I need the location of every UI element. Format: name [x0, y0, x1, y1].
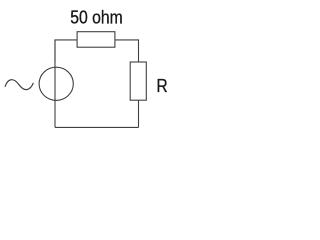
wire top-right: from 50ohm resistor to right corner down into R — [115, 40, 139, 62]
resistor 50 ohm (series box) — [77, 32, 115, 48]
AC tilde symbol — [5, 80, 33, 90]
wire right-bottom: from R down to bottom rail — [138, 100, 140, 127]
wire top-left: from AC source up to 50ohm resistor — [55, 40, 77, 62]
svg-text:50 ohm: 50 ohm — [70, 8, 123, 28]
svg-text:R: R — [156, 76, 167, 96]
resistor R (load box) — [130, 62, 146, 100]
wire bottom rail — [55, 126, 139, 128]
wire left: through AC source circle — [54, 40, 56, 128]
AC source circle — [39, 67, 73, 100]
